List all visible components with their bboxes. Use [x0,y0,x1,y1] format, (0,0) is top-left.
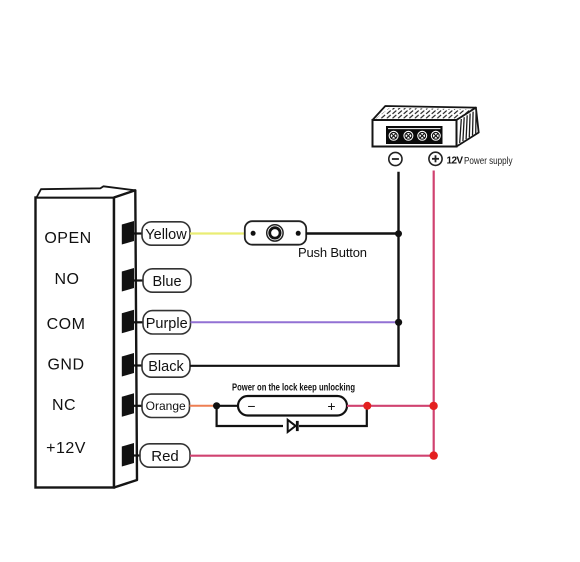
terminal NC [122,393,134,417]
svg-text:−: − [247,398,255,414]
tag Yellow [142,222,190,245]
wire red: Red tag to bus [190,455,434,457]
tag Black [142,354,190,377]
wire terminal to Black tag [130,364,143,366]
terminal GND [122,353,134,377]
svg-text:Power supply: Power supply [464,156,513,167]
svg-text:+: + [327,398,335,414]
push button S1 [245,221,306,245]
power supply front face [373,120,457,147]
plus terminal symbol [429,152,442,165]
wire terminal to Blue tag [130,279,144,281]
svg-text:NO: NO [55,271,80,288]
svg-text:12V: 12V [447,155,464,166]
wire terminal to Yellow tag [130,232,143,234]
wire black: Black tag to bus [190,365,400,367]
controller box front face [36,198,115,488]
wire terminal to Orange tag [130,405,143,407]
wire push button to minus bus [306,232,400,234]
svg-text:OPEN: OPEN [44,230,91,247]
power supply top face [373,106,476,120]
power supply right face [457,108,479,147]
svg-text:NC: NC [52,397,76,414]
tag Orange [142,394,190,417]
junction push button node [395,230,402,237]
controller box right side face [114,190,137,487]
svg-text:Power on the lock keep unlocki: Power on the lock keep unlocking [232,382,355,394]
wire yellow: Yellow tag to push button [190,232,246,234]
svg-text:GND: GND [47,357,84,374]
terminal NO [122,268,134,292]
minus terminal symbol [389,152,402,165]
wire diode bypass right [299,406,367,426]
wire minus vertical bus [397,172,399,367]
svg-text:Orange: Orange [146,399,186,413]
power supply terminal strip [386,126,443,144]
wire node to lock minus [217,405,239,407]
terminal screw 4 [431,131,441,141]
terminal OPEN [122,221,134,245]
junction lock plus node [363,402,371,410]
svg-text:Black: Black [148,359,184,375]
svg-text:Yellow: Yellow [145,227,187,243]
junction red bus / lock node [429,402,437,410]
svg-text:Purple: Purple [146,316,188,332]
wire red vertical bus [433,171,435,456]
wire diode bypass left [217,406,283,426]
terminal +12V [122,443,134,467]
lock (electric lock) [238,396,347,416]
diode D1 [288,420,298,432]
wire orange: Orange tag to lock node [190,405,217,407]
terminal screw 2 [403,131,413,141]
tag Purple [143,311,191,334]
terminal screw 1 [389,131,399,141]
tag Red [140,444,190,467]
controller box top face [37,186,136,197]
junction lock minus node [213,402,220,409]
wire red: lock plus to +12 bus [347,405,434,407]
terminal screw 3 [417,131,427,141]
wire terminal to Red tag [130,454,141,456]
svg-text:COM: COM [47,316,86,333]
junction red bus bottom node [430,451,438,459]
svg-text:Push Button: Push Button [298,245,367,260]
tag Blue [143,269,191,292]
svg-text:+12V: +12V [46,440,86,457]
wire purple: Purple tag to bus [191,321,399,323]
power supply top face hatch [370,103,482,123]
wire terminal to Purple tag [130,321,144,323]
terminal COM [122,310,134,334]
power supply right face hatch [460,110,476,143]
svg-text:Blue: Blue [152,274,181,290]
junction purple node [395,319,402,326]
svg-text:Red: Red [151,448,179,465]
